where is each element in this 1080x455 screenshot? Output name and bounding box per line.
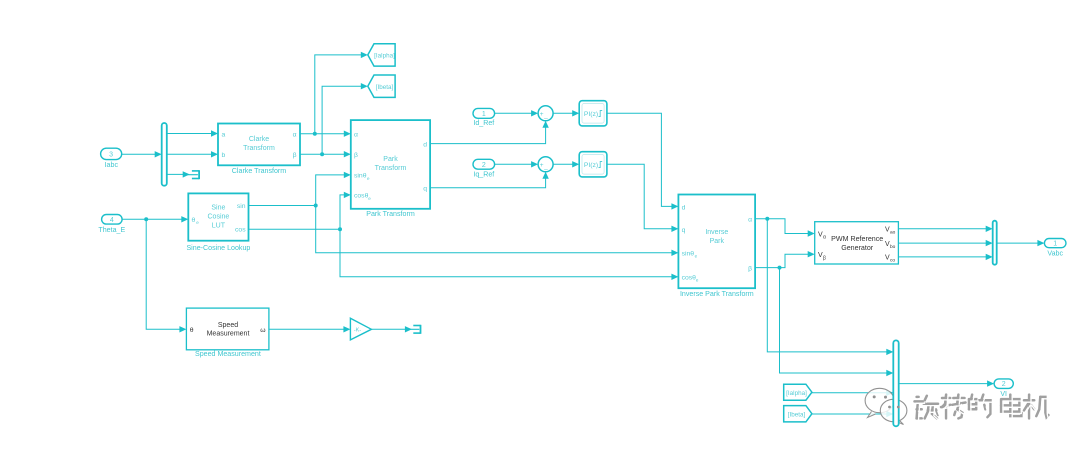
svg-text:[Ibeta]: [Ibeta] (788, 411, 806, 418)
svg-text:Inverse: Inverse (705, 229, 728, 236)
sum junction S1 (538, 106, 553, 121)
wire from Ialpha to mux2 (812, 392, 890, 394)
svg-text:θ: θ (192, 217, 196, 224)
wire Clarke alpha to Park alpha (300, 133, 348, 135)
svg-text:θ: θ (190, 327, 194, 334)
watermark WeChat logo (865, 388, 894, 412)
wire Vbo to mux1 (898, 242, 989, 244)
svg-text:Cosine: Cosine (208, 214, 230, 221)
wire Clarke beta to Park beta (300, 153, 348, 155)
watermark WeChat logo eyes (888, 406, 891, 409)
svg-text:β: β (748, 265, 752, 272)
wire demux to terminator (167, 173, 187, 175)
block Clarke Transform (218, 124, 300, 166)
watermark text xuanzhuan de dianji (917, 396, 919, 399)
output port 1 Vabc (1044, 239, 1066, 248)
svg-text:2: 2 (482, 162, 486, 169)
svg-text:PWM Reference: PWM Reference (831, 235, 883, 243)
svg-text:Park: Park (710, 238, 725, 245)
block Inverse Park (678, 195, 755, 289)
wire demux to Clarke b (167, 153, 215, 155)
svg-text:q: q (682, 227, 686, 234)
svg-text:Iq_Ref: Iq_Ref (473, 170, 494, 178)
wire sum1 to PI1 (553, 112, 576, 114)
wire Vco to mux1 (898, 256, 989, 258)
wire PI2 to Inverse Park q (607, 164, 675, 229)
svg-text:2: 2 (1002, 381, 1006, 388)
from tag Ibeta (784, 406, 812, 422)
svg-text:co: co (890, 259, 895, 264)
svg-text:[Ialpha]: [Ialpha] (374, 53, 395, 60)
svg-text:3: 3 (109, 152, 113, 159)
output port 2 VI (994, 379, 1013, 389)
wire Iabc to demux (122, 153, 159, 155)
svg-text:cosθ: cosθ (354, 193, 369, 200)
svg-text:sinθ: sinθ (354, 173, 367, 180)
wire gain to terminator (371, 328, 408, 330)
wire Theta_E to LUT (122, 218, 185, 220)
svg-text:Theta_E: Theta_E (98, 226, 125, 234)
goto tag Ialpha (368, 44, 395, 66)
svg-text:Clarke: Clarke (249, 136, 269, 143)
wire mux1 to Vabc (997, 242, 1041, 244)
wire to goto Ibeta (322, 86, 365, 154)
wire PI1 to Inverse Park d (607, 113, 675, 206)
wire Speed to gain (269, 328, 347, 330)
svg-text:[Ialpha]: [Ialpha] (786, 390, 807, 397)
svg-text:α: α (354, 132, 358, 139)
svg-text:-K-: -K- (354, 328, 362, 334)
wire Park q feedback to sum2 (430, 175, 545, 188)
svg-text:q: q (423, 186, 427, 193)
wire Vao to mux1 (898, 228, 989, 230)
wire Theta_E down to Speed Measurement (146, 219, 183, 329)
input port 4 Theta_E (102, 215, 123, 225)
svg-text:Transform: Transform (243, 145, 275, 152)
svg-text:β: β (354, 152, 358, 159)
mux M1 (993, 221, 997, 265)
svg-text:VI: VI (1000, 391, 1007, 398)
wire beta down to mux2 (780, 268, 891, 373)
svg-text:PI(z): PI(z) (584, 162, 598, 169)
wire alpha down to mux2 (767, 219, 890, 352)
wire to goto Ialpha (315, 55, 365, 134)
svg-text:cosθ: cosθ (682, 275, 697, 282)
svg-text:–: – (544, 166, 548, 173)
block Park Transform (351, 120, 430, 209)
input port 3 Iabc (101, 148, 122, 159)
wire InvPark beta to PWM Vbeta (755, 254, 811, 267)
block Sine Cosine LUT (188, 193, 248, 240)
svg-text:[Ibeta]: [Ibeta] (376, 84, 394, 91)
svg-text:Transform: Transform (375, 165, 407, 172)
svg-text:Measurement: Measurement (207, 330, 250, 337)
svg-text:Park Transform: Park Transform (366, 210, 415, 218)
wire cos down to Inverse Park (340, 229, 675, 277)
svg-text:Id_Ref: Id_Ref (473, 119, 494, 127)
wire Iq_Ref to sum2 (495, 163, 535, 165)
svg-text:1: 1 (482, 111, 486, 118)
block Speed Measurement (186, 308, 269, 350)
svg-text:α: α (748, 216, 752, 223)
svg-text:Generator: Generator (841, 244, 874, 252)
wire sin up to Park (316, 175, 348, 206)
svg-text:4: 4 (110, 217, 114, 224)
svg-text:β: β (823, 255, 826, 261)
svg-text:β: β (293, 152, 297, 159)
wire cos out (249, 228, 341, 230)
wire Park d feedback to sum1 (430, 124, 545, 144)
svg-text:Iabc: Iabc (105, 161, 119, 169)
svg-text:Park: Park (383, 156, 398, 163)
svg-text:–: – (544, 115, 548, 122)
svg-text:ω: ω (260, 327, 266, 334)
wire from Ibeta to mux2 (812, 413, 890, 415)
svg-text:sin: sin (237, 203, 246, 210)
terminator T2 (413, 325, 420, 327)
wire sin out (249, 205, 316, 207)
wire sin down to Inverse Park (316, 206, 676, 253)
svg-text:PI(z): PI(z) (584, 111, 598, 118)
svg-text:cos: cos (235, 227, 246, 234)
svg-text:d: d (682, 204, 686, 211)
wire InvPark alpha to PWM Valpha (755, 219, 811, 234)
input port 1 Id_Ref (473, 108, 495, 118)
svg-text:Inverse Park Transform: Inverse Park Transform (680, 290, 754, 298)
svg-text:1: 1 (1053, 241, 1057, 248)
svg-text:Vabc: Vabc (1047, 250, 1063, 258)
svg-text:d: d (423, 141, 427, 148)
svg-text:Clarke Transform: Clarke Transform (232, 167, 286, 175)
sum junction S2 (538, 157, 553, 172)
svg-text:b: b (222, 152, 226, 159)
svg-text:Speed Measurement: Speed Measurement (195, 350, 261, 358)
gain -K- (350, 318, 371, 340)
goto tag Ibeta (368, 75, 395, 97)
svg-text:Sine-Cosine Lookup: Sine-Cosine Lookup (186, 244, 250, 252)
terminator T1 (192, 170, 199, 172)
demux (162, 123, 167, 186)
svg-text:α: α (293, 132, 297, 139)
svg-text:LUT: LUT (212, 223, 226, 230)
block PI2 PI(z) (579, 152, 607, 177)
mux M2 (893, 340, 898, 426)
input port 2 Iq_Ref (473, 159, 495, 169)
svg-text:bo: bo (890, 244, 896, 250)
wire demux to Clarke a (167, 133, 215, 135)
block PWM Reference Generator (815, 222, 899, 264)
svg-text:Speed: Speed (218, 322, 238, 329)
block PI1 PI(z) (579, 101, 607, 126)
wire Id_Ref to sum1 (495, 112, 535, 114)
wire cos up to Park (340, 195, 348, 229)
from tag Ialpha (784, 384, 812, 400)
svg-text:ao: ao (890, 231, 896, 236)
wire mux2 to port VI (899, 383, 991, 385)
svg-text:sinθ: sinθ (682, 251, 695, 258)
svg-text:α: α (823, 235, 826, 241)
svg-text:Sine: Sine (211, 205, 225, 212)
wire sum2 to PI2 (553, 163, 576, 165)
svg-text:a: a (222, 132, 226, 139)
